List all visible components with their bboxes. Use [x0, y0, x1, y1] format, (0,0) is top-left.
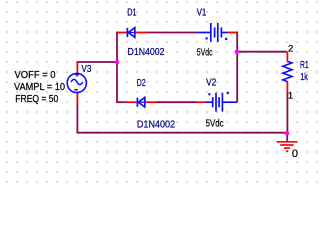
svg-text:D1: D1 — [127, 8, 137, 19]
svg-text:V1: V1 — [197, 7, 207, 18]
svg-text:1k: 1k — [300, 72, 308, 83]
svg-text:0: 0 — [292, 148, 298, 160]
svg-text:5Vdc: 5Vdc — [206, 118, 224, 129]
svg-text:VAMPL = 10: VAMPL = 10 — [14, 82, 65, 93]
svg-text:VOFF = 0: VOFF = 0 — [15, 70, 56, 81]
svg-text:5Vdc: 5Vdc — [197, 48, 213, 59]
svg-text:D2: D2 — [137, 78, 146, 89]
svg-text:D1N4002: D1N4002 — [137, 119, 176, 130]
svg-text:2: 2 — [288, 43, 293, 54]
svg-text:V3: V3 — [81, 64, 91, 75]
svg-text:FREQ = 50: FREQ = 50 — [15, 94, 58, 105]
svg-text:1: 1 — [288, 91, 293, 102]
svg-text:D1N4002: D1N4002 — [128, 47, 165, 58]
svg-text:R1: R1 — [300, 60, 309, 71]
svg-text:V2: V2 — [206, 78, 217, 89]
